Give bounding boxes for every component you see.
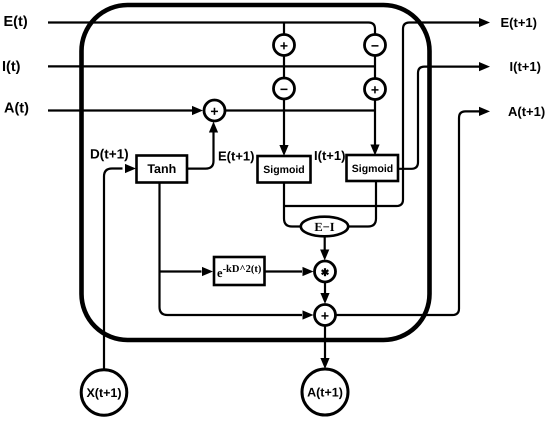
arrowhead into plus circle U7 top: [320, 293, 329, 304]
svg-text:+: +: [371, 82, 379, 98]
op circle plus U1 at (284,45): [274, 35, 295, 56]
arrowhead into plus circle bottom: [209, 122, 218, 133]
box Sigmoid1: [258, 156, 311, 183]
wire Tanh bottom down and right to plus circle U7: [160, 182, 303, 315]
svg-text:E(t+1): E(t+1): [501, 15, 537, 30]
arrowhead I(t+1) output: [479, 62, 490, 71]
op circle star U6 at (325,271.5): [315, 261, 336, 282]
arrowhead into Sigmoid1 top: [279, 145, 288, 156]
svg-text:+: +: [321, 308, 329, 324]
svg-text:I(t+1): I(t+1): [510, 59, 541, 74]
wire E(t+1) output branch from Sigmoid1 wire up and right: [284, 23, 479, 207]
cell boundary rounded rectangle: [82, 5, 430, 340]
wire A(t) input line left of plus circle: [48, 109, 192, 111]
svg-text:A(t+1): A(t+1): [508, 104, 545, 119]
op circle plus U4 at (375,89): [365, 79, 386, 100]
op circle plus U5 at (214.5,110.5): [204, 100, 225, 121]
op circle minus U2 at (284,88.5): [274, 78, 295, 99]
svg-text:I(t+1): I(t+1): [314, 148, 345, 163]
node A(t+1) circle: [302, 369, 348, 415]
arrowhead into Tanh left: [125, 164, 136, 173]
wire exponential box output to star circle: [265, 270, 303, 272]
svg-text:D(t+1): D(t+1): [90, 147, 129, 162]
svg-text:−: −: [280, 81, 288, 97]
wire I(t+1) output from Sigmoid2 right up and right: [398, 67, 479, 169]
arrowhead E(t+1) output: [479, 18, 490, 27]
svg-text:Tanh: Tanh: [147, 162, 176, 176]
box Sigmoid2: [347, 155, 399, 181]
wire branch to exponential box: [160, 270, 202, 272]
arrowhead into plus circle U5: [192, 106, 203, 115]
arrowhead into star circle left: [303, 267, 314, 276]
wire E(t) input line with elbow down at x=375: [48, 23, 375, 147]
op circle plus U7 at (325,315): [315, 305, 336, 326]
svg-text:−: −: [371, 38, 379, 54]
arrowhead into star circle top: [320, 250, 329, 261]
svg-text:E−I: E−I: [314, 220, 334, 234]
wire vertical chain at x=284 from E line to Sigmoid1: [283, 23, 285, 147]
arrowhead into Sigmoid2 top: [370, 145, 379, 156]
wire star circle to plus circle U7: [324, 282, 326, 294]
svg-text:E(t): E(t): [4, 14, 28, 30]
svg-text:Sigmoid: Sigmoid: [263, 164, 304, 176]
wire A(t) line from plus circle to x=375: [226, 109, 376, 111]
svg-text:X(t+1): X(t+1): [86, 386, 121, 400]
arrowhead into plus circle U7 left: [303, 310, 314, 319]
svg-text:+: +: [280, 38, 288, 54]
svg-text:I(t): I(t): [2, 59, 21, 75]
wire A(t+1) output from plus circle U7 right up and right: [336, 111, 480, 315]
wire Sigmoid1 bottom to E-I ellipse left: [284, 182, 302, 227]
wire X(t+1) up to Tanh: [104, 169, 123, 371]
box Tanh: [137, 156, 188, 183]
wire Tanh output to plus circle U5: [187, 132, 214, 169]
arrowhead A(t+1) output: [479, 107, 490, 116]
wire Sigmoid2 bottom to E-I ellipse right: [348, 181, 376, 227]
box exponential e^-kD^2(t): [214, 257, 265, 285]
svg-text:+: +: [210, 103, 218, 119]
svg-text:E(t+1): E(t+1): [218, 148, 254, 163]
arrowhead into exponential box: [202, 267, 213, 276]
svg-text:A(t+1): A(t+1): [307, 386, 343, 400]
op circle minus U3 at (375,45): [365, 35, 386, 56]
wire E-I ellipse to star circle: [324, 236, 326, 250]
svg-text:A(t): A(t): [4, 101, 29, 117]
wire I(t) input line: [48, 65, 375, 67]
node E-I ellipse: [301, 217, 348, 237]
wire plus circle U7 down to A(t+1) circle: [324, 326, 326, 359]
arrowhead into A(t+1) circle top: [320, 358, 329, 369]
node X(t+1) circle: [81, 370, 127, 416]
svg-text:Sigmoid: Sigmoid: [352, 163, 393, 175]
